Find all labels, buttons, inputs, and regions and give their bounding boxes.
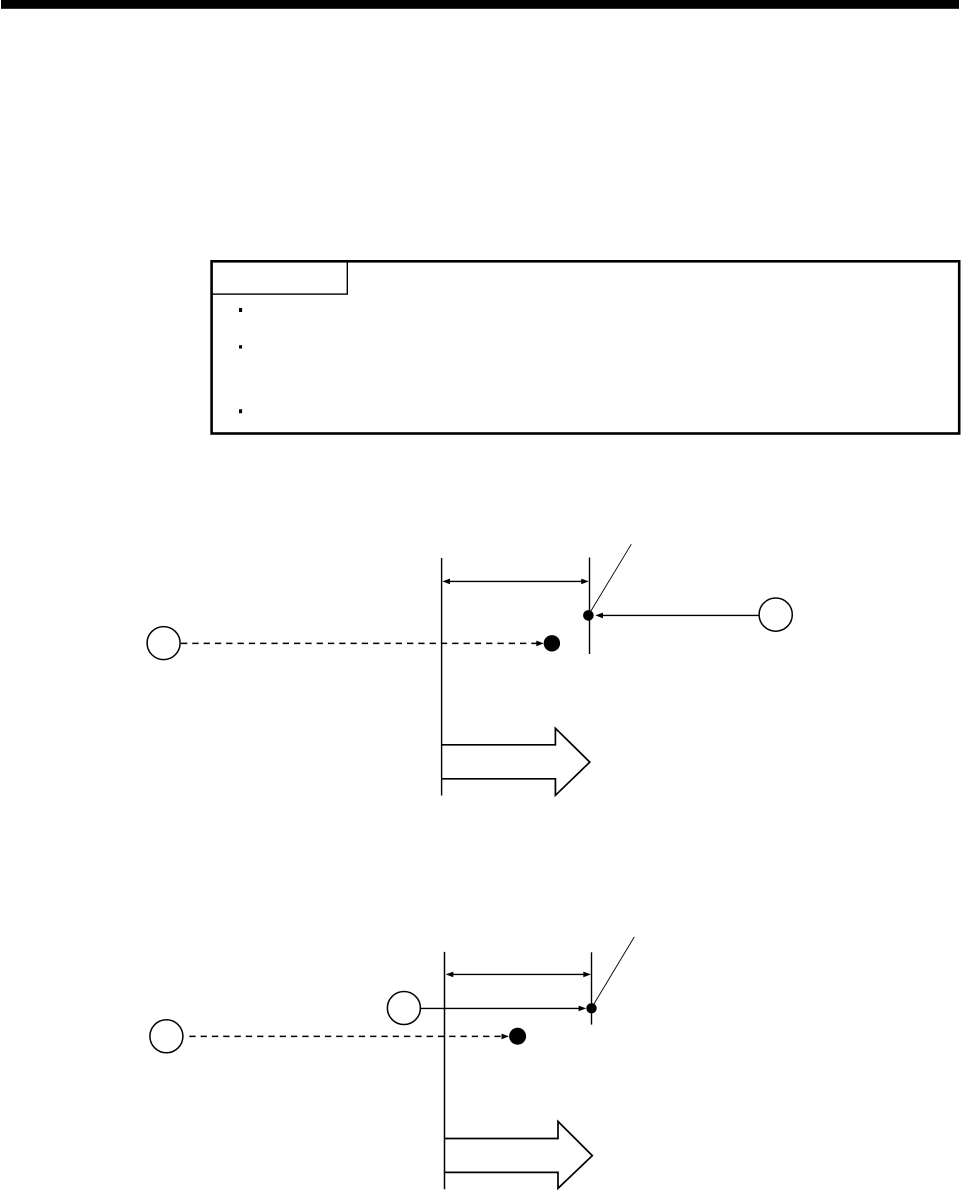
header bar bbox=[1, 0, 959, 9]
d2 dimension arrowhead right bbox=[583, 972, 591, 978]
d1 dimension line (shift distance) bbox=[449, 580, 582, 582]
d2 short vertical line (home position) bbox=[591, 952, 593, 1024]
d2 diagonal leader line bbox=[592, 937, 635, 1008]
bullet 1 bbox=[239, 308, 242, 312]
d2 long vertical line (dog front end) bbox=[444, 952, 446, 1189]
d1 block arrow (movement direction) bbox=[442, 728, 590, 795]
bullet 3 bbox=[239, 409, 242, 413]
d2 middle circle (callout) bbox=[387, 992, 420, 1025]
d2 small node dot on home position line bbox=[586, 1003, 596, 1013]
d2 dashed travel line bbox=[189, 1035, 502, 1037]
d2 block arrow (movement direction) bbox=[444, 1121, 592, 1188]
d2 left circle (callout) bbox=[150, 1020, 183, 1053]
d1 diagonal leader line bbox=[589, 544, 632, 614]
d1 filled position dot bbox=[544, 635, 560, 651]
d1 dimension arrowhead right bbox=[581, 579, 589, 585]
d1 dimension arrowhead left bbox=[442, 579, 450, 585]
POINT box outer frame bbox=[212, 261, 960, 433]
d2 dashed line arrowhead bbox=[502, 1034, 510, 1040]
d1 right circle (callout) bbox=[759, 598, 792, 631]
d1 dashed line arrowhead bbox=[536, 641, 544, 647]
d2 filled position dot bbox=[509, 1028, 526, 1045]
d2 arrow line from middle circle to node bbox=[421, 1007, 580, 1009]
d2 dimension line (travel distance) bbox=[452, 973, 585, 975]
bullet 2 bbox=[239, 345, 242, 348]
d1 left circle (callout) bbox=[147, 627, 180, 660]
d1 dashed travel line bbox=[181, 642, 538, 644]
d2 dimension arrowhead left bbox=[446, 972, 454, 978]
d1 arrowhead pointing left at node bbox=[595, 613, 603, 619]
d1 long vertical line (dog front end) bbox=[441, 558, 443, 796]
POINT label box bbox=[212, 261, 348, 294]
d1 arrow line from right circle to node bbox=[601, 614, 758, 616]
d2 arrowhead pointing right at node bbox=[579, 1006, 587, 1012]
d1 small node dot on home position line bbox=[583, 610, 594, 621]
d1 short vertical line (home position) bbox=[589, 558, 591, 655]
